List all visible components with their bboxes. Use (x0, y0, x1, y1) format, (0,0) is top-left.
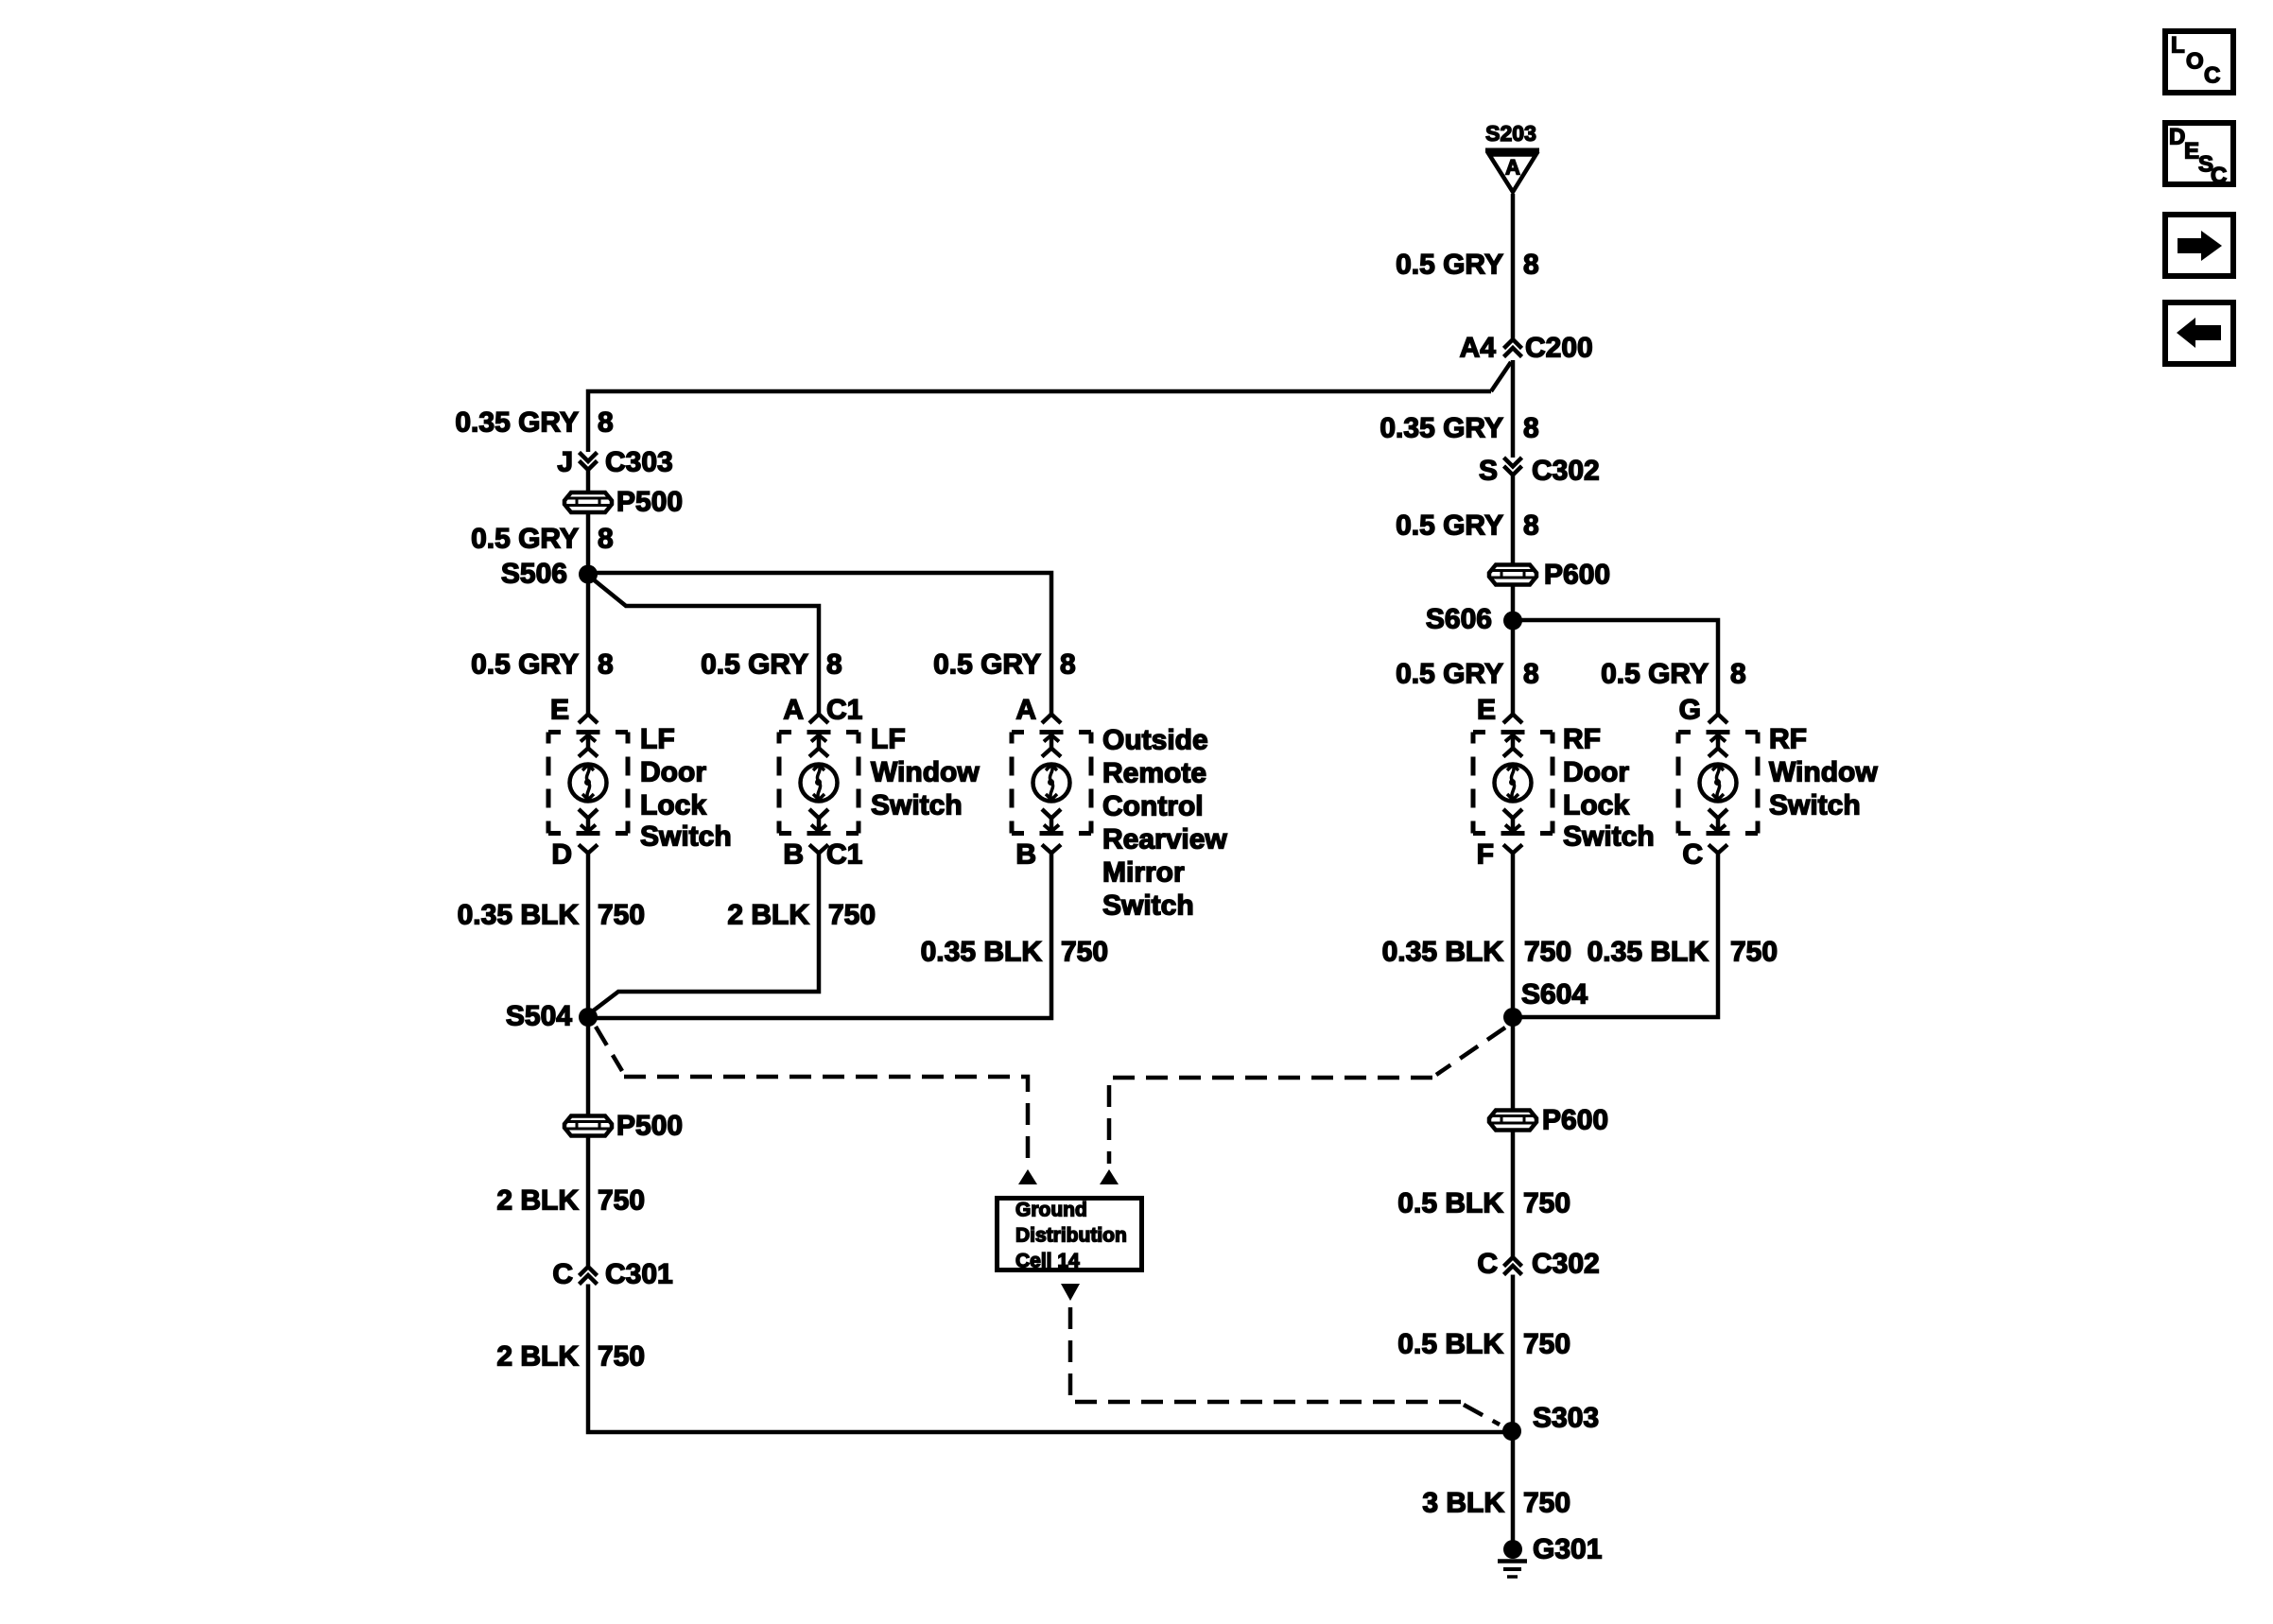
nav box DESC (2165, 123, 2233, 189)
wire S606 branch to RF window switch (1513, 620, 1718, 715)
svg-text:S606: S606 (1426, 604, 1492, 635)
arrow out of ground cell bottom (1061, 1284, 1080, 1301)
splice S504 (579, 1008, 598, 1027)
svg-text:8: 8 (1060, 649, 1076, 681)
nav box LOC (2165, 31, 2233, 93)
svg-text:0.5 GRY: 0.5 GRY (471, 649, 579, 681)
wire C302 lower to S303 (1511, 1275, 1516, 1432)
dashed ref S504 horizontal to ground cell arrow (624, 1077, 1028, 1164)
svg-text:Rearview: Rearview (1102, 824, 1227, 855)
pass-through grommet P500 top (564, 492, 612, 512)
svg-text:0.35 BLK: 0.35 BLK (921, 937, 1043, 968)
dashed ref diagonal into S303 (1464, 1405, 1500, 1425)
ground G301 symbol (1498, 1540, 1527, 1577)
wire S203 to C200 (1511, 194, 1516, 338)
splice S506 (579, 565, 598, 584)
svg-text:8: 8 (598, 649, 614, 681)
svg-text:Control: Control (1102, 791, 1204, 822)
svg-text:G: G (1679, 695, 1701, 726)
nav box arrow left (2165, 302, 2233, 364)
svg-text:Switch: Switch (640, 821, 732, 853)
svg-text:Remote: Remote (1102, 758, 1206, 789)
svg-text:8: 8 (1730, 659, 1746, 690)
splice S604 (1503, 1008, 1522, 1027)
svg-text:S: S (1479, 456, 1498, 487)
svg-text:Window: Window (871, 757, 980, 788)
svg-text:8: 8 (1523, 659, 1539, 690)
connector C302 top (1504, 458, 1522, 475)
svg-text:C1: C1 (826, 839, 862, 871)
svg-text:C: C (1477, 1249, 1498, 1280)
svg-text:Door: Door (640, 757, 706, 788)
svg-text:750: 750 (1523, 1188, 1570, 1219)
outside remote control rearview mirror switch symbol (1012, 715, 1091, 854)
svg-text:S504: S504 (506, 1001, 572, 1032)
svg-text:750: 750 (1061, 937, 1108, 968)
svg-text:Lock: Lock (640, 790, 706, 821)
svg-text:S604: S604 (1521, 979, 1588, 1011)
svg-text:LF: LF (871, 724, 906, 755)
svg-text:A: A (1015, 695, 1036, 726)
LF door lock switch symbol (548, 715, 628, 854)
svg-text:750: 750 (1523, 1488, 1570, 1519)
svg-text:0.5 GRY: 0.5 GRY (701, 649, 808, 681)
svg-text:P600: P600 (1542, 1105, 1608, 1136)
svg-text:2 BLK: 2 BLK (727, 900, 809, 931)
dashed ref from ground cell down to S303 (1070, 1307, 1462, 1402)
svg-text:0.5 BLK: 0.5 BLK (1397, 1188, 1503, 1219)
svg-text:C302: C302 (1532, 456, 1600, 487)
svg-text:C301: C301 (605, 1259, 673, 1290)
svg-text:750: 750 (598, 900, 645, 931)
svg-text:0.5 GRY: 0.5 GRY (1396, 659, 1503, 690)
svg-text:0.5 GRY: 0.5 GRY (1396, 510, 1503, 542)
svg-text:Window: Window (1769, 757, 1878, 788)
svg-text:2 BLK: 2 BLK (496, 1341, 579, 1373)
svg-text:Switch: Switch (1563, 821, 1655, 853)
wire S604 to C302 lower (1511, 1017, 1516, 1256)
svg-text:C303: C303 (605, 447, 673, 478)
svg-text:C200: C200 (1525, 333, 1593, 364)
svg-text:LF: LF (640, 724, 675, 755)
svg-text:3 BLK: 3 BLK (1422, 1488, 1504, 1519)
svg-text:8: 8 (1523, 510, 1539, 542)
svg-text:A: A (1505, 156, 1520, 180)
svg-text:Lock: Lock (1563, 790, 1629, 821)
svg-text:E: E (1477, 695, 1496, 726)
svg-text:C302: C302 (1532, 1249, 1600, 1280)
wire LF door lock switch pin D to S504 (586, 853, 591, 1017)
svg-text:J: J (557, 447, 573, 478)
pass-through grommet P600 top (1489, 565, 1536, 585)
svg-text:G301: G301 (1533, 1534, 1602, 1565)
svg-text:2 BLK: 2 BLK (496, 1185, 579, 1217)
svg-text:8: 8 (1523, 250, 1539, 281)
svg-text:Switch: Switch (871, 790, 963, 821)
svg-text:C: C (2211, 164, 2227, 189)
dashed ref from S504 diagonal (596, 1027, 622, 1071)
wire outside mirror switch pin B to S504 (588, 853, 1051, 1018)
svg-text:0.5 GRY: 0.5 GRY (471, 524, 579, 555)
wire top horizontal from C200 to LF branch (588, 391, 1491, 452)
svg-text:Switch: Switch (1769, 790, 1861, 821)
svg-text:Door: Door (1563, 757, 1629, 788)
svg-text:S203: S203 (1485, 121, 1536, 146)
arrow into ground cell right (1100, 1169, 1119, 1184)
wire S506 branch to outside mirror switch (588, 573, 1051, 715)
svg-text:F: F (1477, 839, 1494, 871)
svg-text:S303: S303 (1533, 1403, 1599, 1434)
svg-text:C1: C1 (826, 695, 862, 726)
svg-text:750: 750 (598, 1341, 645, 1373)
svg-text:8: 8 (598, 524, 614, 555)
svg-text:RF: RF (1563, 724, 1601, 755)
LF window switch symbol (779, 715, 859, 854)
dashed ref S604 horizontal to ground cell arrow (1109, 1078, 1432, 1164)
svg-text:O: O (2186, 49, 2204, 75)
svg-text:0.5 BLK: 0.5 BLK (1397, 1329, 1503, 1360)
connector C200 (1504, 339, 1522, 357)
S203 ref triangle (1485, 148, 1539, 153)
svg-text:8: 8 (598, 407, 614, 439)
ground distribution cell box (998, 1199, 1142, 1270)
svg-text:D: D (551, 839, 572, 871)
svg-text:C: C (552, 1259, 573, 1290)
svg-text:RF: RF (1769, 724, 1807, 755)
RF door lock switch symbol (1473, 715, 1553, 854)
wire S504 to C301 (586, 1017, 591, 1266)
svg-text:C: C (1682, 839, 1703, 871)
svg-text:Mirror: Mirror (1102, 857, 1185, 889)
svg-text:Ground: Ground (1015, 1200, 1087, 1221)
svg-text:750: 750 (1523, 1329, 1570, 1360)
nav box arrow right (2165, 215, 2233, 276)
wire C302 to pin E RF door lock (1511, 475, 1516, 715)
RF window switch symbol (1678, 715, 1758, 854)
svg-text:P500: P500 (616, 487, 683, 518)
pass-through grommet P600 bottom (1489, 1111, 1536, 1131)
svg-text:0.5 GRY: 0.5 GRY (1601, 659, 1709, 690)
arrow into ground cell left (1018, 1169, 1037, 1184)
svg-text:P500: P500 (616, 1111, 683, 1142)
connector C301 (580, 1267, 598, 1285)
connector C302 bottom (1504, 1257, 1522, 1275)
svg-text:750: 750 (598, 1185, 645, 1217)
svg-text:E: E (2184, 139, 2199, 164)
wire diagonal into C200 (1491, 362, 1511, 391)
wire left main C303 to pin E (586, 470, 591, 715)
svg-text:750: 750 (1524, 937, 1571, 968)
svg-text:C: C (2204, 63, 2220, 89)
svg-text:0.5 GRY: 0.5 GRY (1396, 250, 1503, 281)
svg-text:P600: P600 (1544, 560, 1610, 591)
svg-text:0.35 GRY: 0.35 GRY (455, 407, 579, 439)
svg-text:E: E (550, 695, 569, 726)
svg-text:A4: A4 (1460, 333, 1497, 364)
svg-text:Switch: Switch (1102, 890, 1194, 922)
svg-text:S506: S506 (501, 559, 567, 590)
svg-text:D: D (2169, 125, 2185, 150)
svg-text:Distribution: Distribution (1015, 1225, 1127, 1247)
wire S506 diagonal branch to LF window switch (591, 578, 819, 715)
svg-text:L: L (2171, 33, 2185, 59)
splice S303 (1502, 1422, 1521, 1441)
svg-text:750: 750 (828, 900, 876, 931)
svg-text:8: 8 (826, 649, 842, 681)
splice S606 (1503, 612, 1522, 631)
wire RF door lock pin F to S604 (1511, 853, 1516, 1017)
svg-text:750: 750 (1730, 937, 1778, 968)
svg-text:Outside: Outside (1102, 725, 1208, 756)
svg-text:0.35 GRY: 0.35 GRY (1379, 413, 1503, 444)
wire C301 to S303 bottom run (588, 1285, 1511, 1433)
connector C303 (580, 453, 598, 471)
svg-text:Cell 14: Cell 14 (1015, 1251, 1080, 1272)
wire LF window switch pin B to S504 (591, 853, 819, 1012)
svg-text:8: 8 (1523, 413, 1539, 444)
wire S303 to ground G301 (1511, 1431, 1516, 1549)
svg-text:B: B (1015, 839, 1036, 871)
svg-text:0.35 BLK: 0.35 BLK (458, 900, 580, 931)
svg-text:0.35 BLK: 0.35 BLK (1588, 937, 1709, 968)
svg-text:0.5 GRY: 0.5 GRY (933, 649, 1041, 681)
wire RF window pin C to S604 (1513, 853, 1718, 1017)
svg-text:0.35 BLK: 0.35 BLK (1382, 937, 1504, 968)
dashed ref from S604 diagonal (1436, 1028, 1505, 1075)
wire C200 to C302 (1511, 360, 1516, 458)
pass-through grommet P500 bottom (564, 1116, 612, 1136)
svg-text:A: A (783, 695, 804, 726)
svg-text:B: B (783, 839, 804, 871)
